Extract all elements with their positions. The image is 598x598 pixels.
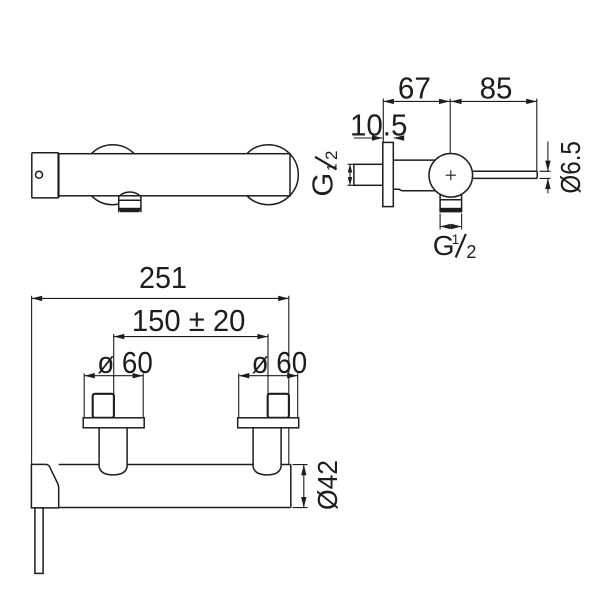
lever end cap: [32, 153, 59, 198]
svg-text:Ø42: Ø42: [312, 460, 343, 510]
extension line at flange face: [382, 99, 384, 142]
svg-text:2: 2: [322, 151, 341, 160]
svg-text:G: G: [308, 173, 340, 197]
arrow dia60L right: [133, 373, 144, 378]
dimension line 251: [32, 297, 289, 299]
outlet G1/2 dim line: [440, 226, 462, 228]
ext line left 150 (valve axis): [113, 334, 115, 427]
dimension line 150: [114, 336, 268, 338]
svg-text:1: 1: [452, 232, 460, 247]
right eccentric union (square stem): [268, 394, 289, 418]
valve body circle: [429, 154, 473, 198]
shower outlet spout: white mask: [119, 197, 141, 213]
arrow 6.5 down: [545, 161, 550, 172]
arrow 150 right: [257, 334, 268, 339]
mixer body (horizontal cylinder): [59, 154, 291, 196]
dia 6.5 dimension lines: [547, 142, 549, 194]
label G1/2 bottom: [433, 230, 477, 262]
arrow dia42 up: [301, 465, 306, 476]
arrow nipple up: [348, 164, 353, 172]
arrow 85 right: [526, 99, 537, 104]
right escutcheon flange: [238, 418, 299, 428]
right pipe into body: [253, 428, 281, 475]
label G1/2 rotated (left): [308, 151, 342, 197]
ext line left 251: [31, 296, 33, 465]
inlet nipple G1/2: [354, 164, 383, 185]
dim line dia60 right: [239, 375, 298, 377]
lever rod: [35, 508, 43, 574]
svg-text:67: 67: [398, 71, 431, 106]
arrow 10.5 right: [394, 135, 405, 140]
arrow dia42 down: [301, 497, 306, 508]
G1/2 nipple dimension ext lines: [348, 164, 355, 185]
arrow 10.5 left: [372, 135, 383, 140]
arrow 150 left: [114, 334, 125, 339]
dia42 ext lines: [293, 465, 308, 508]
arrow 6.5 up: [545, 178, 550, 189]
svg-text:ø 60: ø 60: [97, 345, 153, 380]
arrow 85 left: [451, 99, 462, 104]
spout dome arc: [119, 192, 141, 197]
svg-text:150 ± 20: 150 ± 20: [132, 303, 246, 338]
outlet nozzle under valve: sides: [440, 188, 462, 212]
dimension line 67 / 85: [383, 100, 537, 102]
arrow nipple down: [348, 177, 353, 185]
cap screw hole: [36, 171, 43, 178]
wall flange plate: [383, 142, 394, 206]
left wall-flange circle behind body: [83, 145, 143, 205]
arrow 67 right: [439, 99, 450, 104]
arrow dia60R left: [239, 373, 250, 378]
connector top line: [393, 159, 436, 161]
ext lines dia60 right: [239, 373, 298, 417]
dia42 dim line: [303, 465, 305, 508]
G1/2 nipple dimension line: [349, 164, 351, 185]
spout sides: [119, 197, 141, 213]
lever cap (left end): [31, 464, 58, 508]
dia 6.5 ext lines: [540, 171, 551, 178]
right wall-flange circle behind body: [238, 145, 298, 205]
lever bar: [472, 171, 538, 178]
dim line dia60 left: [84, 375, 143, 377]
spout collar line: [119, 199, 141, 201]
dimension 10.5 leader lines: [354, 137, 404, 139]
svg-text:10.5: 10.5: [350, 108, 408, 143]
extension line at valve axis: [449, 99, 451, 169]
arrow outlet left: [440, 224, 451, 229]
arrow 251 right: [278, 296, 289, 301]
svg-text:251: 251: [139, 260, 187, 295]
arrow outlet right: [451, 224, 462, 229]
svg-text:85: 85: [480, 71, 513, 106]
arrow 67 left: [383, 99, 394, 104]
outlet G1/2 ext lines: [440, 214, 462, 230]
connector bottom line with step: [393, 189, 436, 190]
svg-text:2: 2: [466, 242, 476, 262]
spout black thread band: [119, 208, 141, 213]
ext line right 150 (valve axis): [267, 334, 269, 427]
svg-text:Ø6.5: Ø6.5: [555, 141, 586, 194]
left pipe into body: [99, 428, 127, 475]
arrow 251 left: [32, 296, 43, 301]
ext lines dia60 left: [84, 373, 143, 417]
ext line right 251: [288, 296, 290, 465]
extension line at lever end: [536, 99, 538, 171]
outlet collar line: [440, 199, 462, 201]
left eccentric union (square stem): [93, 394, 114, 418]
arrow dia60L left: [84, 373, 95, 378]
main body bar: [59, 465, 291, 508]
svg-text:ø 60: ø 60: [252, 345, 308, 380]
outlet black thread band: [440, 208, 462, 213]
center cross: [446, 170, 456, 180]
arrow dia60R right: [287, 373, 298, 378]
left escutcheon flange: [83, 418, 144, 428]
